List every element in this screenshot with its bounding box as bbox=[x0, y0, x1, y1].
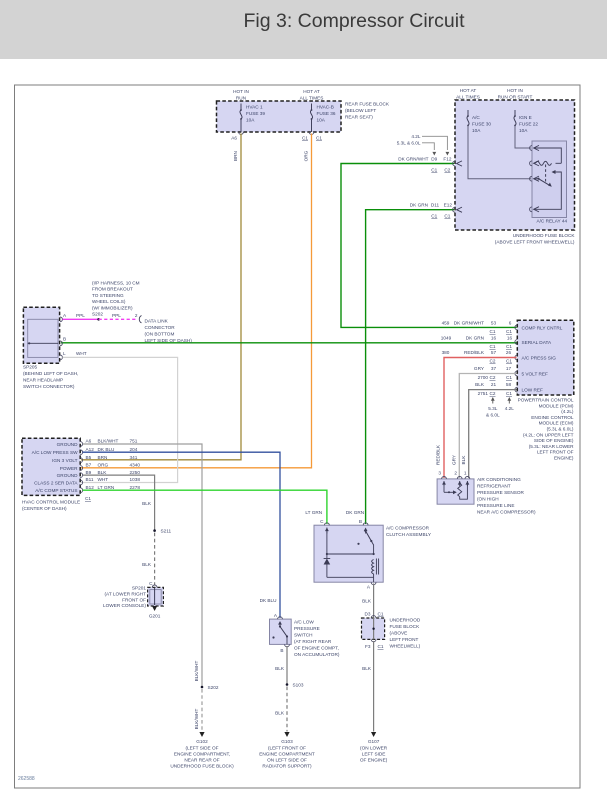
wire WHT 1038 SP205 to HVAC module bbox=[63, 357, 178, 482]
svg-text:BLK: BLK bbox=[362, 599, 372, 604]
svg-text:ENGINE COMPARTMENT: ENGINE COMPARTMENT bbox=[259, 751, 315, 756]
svg-text:LEFT SIDE: LEFT SIDE bbox=[362, 751, 386, 756]
svg-text:(LEFT SIDE OF: (LEFT SIDE OF bbox=[186, 745, 219, 750]
pressure sensor resistor bbox=[458, 483, 462, 496]
svg-text:A/C PRESS SIG: A/C PRESS SIG bbox=[522, 356, 557, 361]
svg-text:DK GRN: DK GRN bbox=[466, 336, 484, 341]
wire BLK 2250 to SP201 bbox=[83, 475, 155, 530]
svg-text:5 VOLT REF: 5 VOLT REF bbox=[522, 372, 549, 377]
svg-text:58: 58 bbox=[506, 382, 512, 387]
svg-text:WHT: WHT bbox=[98, 477, 109, 482]
SP201 bus wire bbox=[154, 587, 156, 605]
svg-text:IGN 3 VOLT: IGN 3 VOLT bbox=[52, 458, 78, 463]
svg-text:F3: F3 bbox=[365, 644, 371, 649]
relay pin 4 output bbox=[530, 207, 532, 212]
svg-text:RED/BLK: RED/BLK bbox=[436, 444, 441, 465]
svg-text:C1: C1 bbox=[444, 214, 450, 219]
splice pack SP201 inner box bbox=[150, 590, 161, 604]
svg-text:BLK: BLK bbox=[142, 562, 152, 567]
HVAC control module box bbox=[22, 438, 80, 495]
svg-text:POWERTRAIN CONTROL: POWERTRAIN CONTROL bbox=[518, 398, 574, 403]
svg-text:CLASS 2 SER DATA: CLASS 2 SER DATA bbox=[34, 481, 78, 486]
svg-text:A/C LOW PRESS SW: A/C LOW PRESS SW bbox=[32, 450, 78, 455]
svg-text:A/C: A/C bbox=[472, 115, 480, 120]
svg-text:D9: D9 bbox=[431, 157, 437, 162]
A/C refrigerant pressure sensor box bbox=[437, 479, 474, 504]
svg-text:PPL: PPL bbox=[76, 313, 85, 318]
svg-text:A/C RELAY 44: A/C RELAY 44 bbox=[537, 219, 568, 224]
svg-text:1038: 1038 bbox=[130, 477, 141, 482]
svg-text:ON ACCUMULATOR): ON ACCUMULATOR) bbox=[294, 652, 340, 657]
svg-text:LT GRN: LT GRN bbox=[305, 510, 322, 515]
svg-text:C2: C2 bbox=[490, 375, 496, 380]
svg-text:OF ENGINE COMPT,: OF ENGINE COMPT, bbox=[294, 646, 339, 651]
svg-text:(BELOW LEFT: (BELOW LEFT bbox=[345, 108, 376, 113]
svg-text:16: 16 bbox=[491, 336, 497, 341]
svg-text:17: 17 bbox=[506, 366, 512, 371]
fuse HVAC-B FUSE 36 10A bbox=[311, 104, 313, 111]
svg-text:A/C LOW: A/C LOW bbox=[294, 620, 314, 625]
svg-text:4.2L: 4.2L bbox=[411, 134, 421, 139]
svg-text:(AT RIGHT REAR: (AT RIGHT REAR bbox=[294, 639, 332, 644]
splice pack SP205 inner box bbox=[28, 319, 58, 357]
svg-text:2250: 2250 bbox=[130, 470, 141, 475]
svg-text:CONNECTOR: CONNECTOR bbox=[145, 325, 176, 330]
svg-text:TO STEERING: TO STEERING bbox=[92, 293, 124, 298]
splice pack SP201 outer box bbox=[148, 587, 164, 606]
pin A6 of rear fuse block bbox=[239, 132, 244, 134]
svg-text:FUSE 22: FUSE 22 bbox=[519, 122, 538, 127]
wire DK GRN/WHT 459 relay control bbox=[341, 164, 517, 328]
clutch diode bbox=[326, 554, 328, 558]
svg-text:4340: 4340 bbox=[130, 463, 141, 468]
splice S202 on BLK/WHT bbox=[201, 686, 204, 689]
relay pin 2 coil bbox=[530, 161, 532, 166]
svg-text:ORG: ORG bbox=[303, 150, 308, 161]
rear fuse block box bbox=[217, 101, 342, 132]
relay coil feed from pin 1 bbox=[534, 148, 561, 163]
wire DK GRN 1050 compressor clutch feed bbox=[366, 210, 454, 524]
svg-text:DK GRN: DK GRN bbox=[346, 510, 364, 515]
svg-text:BLK: BLK bbox=[275, 666, 285, 671]
svg-text:GRY: GRY bbox=[474, 366, 485, 371]
fuse A/C FUSE 30 10A bbox=[467, 110, 469, 116]
svg-text:C2: C2 bbox=[444, 168, 450, 173]
underhood fuse block box bbox=[455, 100, 575, 230]
pin F12 connector at underhood block bbox=[453, 161, 455, 166]
svg-text:A6: A6 bbox=[231, 136, 237, 141]
svg-text:3: 3 bbox=[438, 471, 441, 476]
svg-text:(BEHIND LEFT OF DASH,: (BEHIND LEFT OF DASH, bbox=[23, 371, 78, 376]
svg-text:HOT AT: HOT AT bbox=[303, 89, 320, 94]
svg-text:PRESSURE SENSOR: PRESSURE SENSOR bbox=[477, 490, 525, 495]
wire BLK/WHT dashed to ground bbox=[201, 689, 203, 732]
SP205 pin L bbox=[60, 355, 62, 360]
svg-text:ALL TIMES: ALL TIMES bbox=[300, 96, 324, 101]
svg-text:1049: 1049 bbox=[441, 336, 452, 341]
PCM engine variant arrows bbox=[492, 400, 494, 404]
svg-text:4.2L: 4.2L bbox=[505, 406, 515, 411]
svg-text:REAR FUSE BLOCK: REAR FUSE BLOCK bbox=[345, 102, 390, 107]
svg-text:DK GRN/WHT: DK GRN/WHT bbox=[398, 157, 428, 162]
wire from fuse 22 to relay pin 1 bbox=[515, 126, 531, 149]
svg-text:C1: C1 bbox=[431, 168, 437, 173]
svg-text:53: 53 bbox=[491, 321, 497, 326]
compressor pin C bbox=[325, 523, 330, 525]
svg-text:HVAC-B: HVAC-B bbox=[317, 105, 334, 110]
wire BLK underhood block to G107 bbox=[373, 641, 375, 732]
svg-text:BLK: BLK bbox=[461, 455, 466, 465]
svg-text:WHEELWELL): WHEELWELL) bbox=[390, 644, 421, 649]
svg-text:UNDERHOOD FUSE BLOCK: UNDERHOOD FUSE BLOCK bbox=[513, 233, 576, 238]
svg-text:SP205: SP205 bbox=[23, 365, 37, 370]
PCM pin SERIAL DATA bbox=[515, 340, 517, 345]
svg-text:C2: C2 bbox=[490, 359, 496, 364]
fuse IGN E FUSE 22 10A bbox=[514, 110, 516, 116]
svg-text:2751: 2751 bbox=[478, 391, 489, 396]
svg-text:HOT IN: HOT IN bbox=[507, 88, 523, 93]
svg-text:FROM BREAKOUT: FROM BREAKOUT bbox=[92, 287, 133, 292]
svg-text:G107: G107 bbox=[368, 739, 380, 744]
A/C low pressure switch box bbox=[270, 619, 292, 644]
svg-text:DK GRN: DK GRN bbox=[410, 203, 428, 208]
ground G103 bbox=[284, 732, 289, 737]
clutch internal bus bbox=[326, 528, 328, 555]
svg-text:RED/BLK: RED/BLK bbox=[464, 350, 485, 355]
svg-text:G201: G201 bbox=[149, 614, 161, 619]
svg-text:26: 26 bbox=[506, 350, 512, 355]
svg-text:2: 2 bbox=[135, 313, 138, 318]
splice S211 bbox=[153, 529, 156, 532]
svg-text:NEAR A/C COMPRESSOR): NEAR A/C COMPRESSOR) bbox=[477, 510, 536, 515]
pressure sensor wiper bbox=[443, 481, 445, 492]
powertrain control module box bbox=[517, 320, 574, 395]
svg-text:HOT IN: HOT IN bbox=[233, 89, 249, 94]
svg-text:B: B bbox=[280, 648, 283, 653]
pressure sensor pin 2 bbox=[457, 477, 462, 479]
svg-text:6: 6 bbox=[509, 321, 512, 326]
svg-text:PRESSURE LINE: PRESSURE LINE bbox=[477, 503, 515, 508]
svg-text:10A: 10A bbox=[317, 118, 326, 123]
svg-text:A/C COMP STATUS: A/C COMP STATUS bbox=[35, 488, 77, 493]
svg-text:(ABOVE LEFT FRONT WHEELWELL): (ABOVE LEFT FRONT WHEELWELL) bbox=[495, 240, 575, 245]
svg-text:B7: B7 bbox=[86, 463, 92, 468]
svg-text:C1: C1 bbox=[431, 214, 437, 219]
svg-text:21: 21 bbox=[491, 382, 497, 387]
svg-text:UNDERHOOD FUSE BLOCK): UNDERHOOD FUSE BLOCK) bbox=[170, 763, 234, 768]
svg-text:B5: B5 bbox=[86, 455, 92, 460]
svg-text:C1: C1 bbox=[506, 344, 512, 349]
svg-text:NEAR REAR OF: NEAR REAR OF bbox=[184, 757, 219, 762]
svg-text:(5.3L: NEAR LOWER: (5.3L: NEAR LOWER bbox=[529, 444, 574, 449]
PCM pin A/C PRESS SIG bbox=[515, 355, 517, 360]
svg-text:ENGINE CONTROL: ENGINE CONTROL bbox=[531, 415, 574, 420]
wire RED/BLK 380 pressure signal bbox=[444, 358, 517, 479]
svg-text:ALL TIMES: ALL TIMES bbox=[456, 95, 480, 100]
SP205 pin B bbox=[60, 341, 62, 346]
svg-text:C1: C1 bbox=[378, 644, 384, 649]
svg-text:RUN: RUN bbox=[236, 96, 246, 101]
pin E12 connector at underhood block bbox=[453, 207, 455, 212]
svg-text:RADIATOR SUPPORT): RADIATOR SUPPORT) bbox=[262, 763, 312, 768]
pressure sensor pin 3 bbox=[442, 477, 447, 479]
svg-text:LEFT SIDE OF DASH): LEFT SIDE OF DASH) bbox=[145, 338, 193, 343]
svg-text:CLUTCH ASSEMBLY: CLUTCH ASSEMBLY bbox=[386, 532, 432, 537]
svg-text:A/C COMPRESSOR: A/C COMPRESSOR bbox=[386, 526, 430, 531]
svg-text:ON LEFT SIDE OF: ON LEFT SIDE OF bbox=[267, 757, 307, 762]
svg-text:PRESSURE: PRESSURE bbox=[294, 626, 320, 631]
low pressure switch pin A bbox=[278, 617, 283, 619]
svg-text:DK BLU: DK BLU bbox=[98, 447, 116, 452]
clutch switch blade bbox=[365, 530, 367, 532]
svg-text:POWER: POWER bbox=[60, 466, 78, 471]
svg-text:C1: C1 bbox=[506, 329, 512, 334]
wire PPL dashed segment bbox=[99, 318, 137, 320]
A/C compressor clutch assembly box bbox=[314, 525, 383, 582]
clutch coil bbox=[372, 560, 374, 574]
svg-text:(CENTER OF DASH): (CENTER OF DASH) bbox=[22, 506, 67, 511]
svg-text:341: 341 bbox=[130, 455, 138, 460]
svg-text:C2: C2 bbox=[490, 391, 496, 396]
svg-text:FRONT OF: FRONT OF bbox=[122, 597, 146, 602]
svg-text:751: 751 bbox=[130, 439, 138, 444]
wire DK BLU 204 to low pressure switch bbox=[83, 452, 280, 618]
svg-text:BLK/WHT: BLK/WHT bbox=[98, 439, 119, 444]
svg-text:A12: A12 bbox=[86, 447, 95, 452]
svg-text:SWITCH: SWITCH bbox=[294, 633, 313, 638]
svg-text:BLK: BLK bbox=[142, 501, 152, 506]
wire ORG 4340 bbox=[81, 134, 312, 468]
svg-text:BLK/WHT: BLK/WHT bbox=[194, 660, 199, 681]
A/C relay 44 box bbox=[532, 141, 567, 218]
svg-text:WHEEL COILS): WHEEL COILS) bbox=[92, 299, 126, 304]
svg-text:2: 2 bbox=[454, 471, 457, 476]
wire BLK dashed to SP201 bbox=[154, 533, 156, 585]
svg-text:BLK/WHT: BLK/WHT bbox=[194, 708, 199, 729]
svg-text:SERIAL DATA: SERIAL DATA bbox=[522, 340, 552, 345]
svg-text:C1: C1 bbox=[490, 329, 496, 334]
relay pin 3 switch common bbox=[530, 176, 532, 181]
relay actuator dashed link bbox=[545, 165, 547, 184]
wire DK GRN 1049 serial data bbox=[61, 342, 517, 344]
svg-text:(ON HIGH: (ON HIGH bbox=[477, 497, 499, 502]
svg-text:380: 380 bbox=[442, 350, 450, 355]
pin C1 of rear fuse block bbox=[309, 132, 314, 134]
svg-text:37: 37 bbox=[491, 366, 497, 371]
svg-text:BLK: BLK bbox=[362, 666, 372, 671]
svg-text:HOT AT: HOT AT bbox=[460, 88, 477, 93]
svg-text:(4.2L): (4.2L) bbox=[561, 409, 574, 414]
svg-text:(ON LOWER: (ON LOWER bbox=[360, 745, 388, 750]
svg-text:C1: C1 bbox=[506, 359, 512, 364]
svg-text:LEFT FRONT: LEFT FRONT bbox=[390, 637, 419, 642]
svg-text:RUN OR START: RUN OR START bbox=[498, 95, 533, 100]
svg-text:10A: 10A bbox=[519, 128, 528, 133]
svg-text:PPL: PPL bbox=[112, 313, 121, 318]
clutch switch contact dot bbox=[357, 543, 359, 545]
svg-text:HVAC 1: HVAC 1 bbox=[246, 105, 263, 110]
svg-text:ENGINE): ENGINE) bbox=[554, 456, 574, 461]
svg-text:16: 16 bbox=[507, 336, 513, 341]
SP205 bus bar junction bbox=[28, 342, 58, 344]
svg-text:B: B bbox=[359, 519, 362, 524]
relay switch contact from pin 4 bbox=[534, 172, 561, 209]
svg-text:B9: B9 bbox=[86, 470, 92, 475]
relay switch blade bbox=[539, 179, 550, 186]
wire BLK dashed to G103 bbox=[286, 687, 288, 732]
svg-text:BLK: BLK bbox=[475, 382, 485, 387]
compressor pin B bbox=[363, 523, 368, 525]
svg-text:HVAC CONTROL MODULE: HVAC CONTROL MODULE bbox=[22, 500, 80, 505]
splice pack SP205 outer box bbox=[23, 307, 59, 363]
compressor pin A bbox=[371, 582, 376, 584]
svg-text:2278: 2278 bbox=[130, 485, 141, 490]
svg-text:F12: F12 bbox=[443, 157, 451, 162]
fuse HVAC 1 FUSE 39 10A bbox=[240, 104, 242, 111]
svg-text:262588: 262588 bbox=[18, 776, 35, 782]
svg-text:SWITCH CONNECTOR): SWITCH CONNECTOR) bbox=[23, 384, 75, 389]
ground G102 bbox=[199, 732, 204, 737]
underhood pass-through pin F3 bbox=[371, 639, 376, 641]
wire PPL 1807 to data link connector bbox=[63, 318, 99, 320]
svg-text:FUSE BLOCK: FUSE BLOCK bbox=[390, 624, 421, 629]
svg-text:S211: S211 bbox=[161, 529, 172, 534]
wire BLK 2251 switch to G103 bbox=[286, 646, 288, 685]
svg-text:UNDERHOOD: UNDERHOOD bbox=[390, 618, 421, 623]
svg-text:C1: C1 bbox=[316, 136, 322, 141]
PCM pin COMP RLY CNTRL bbox=[515, 325, 517, 330]
pressure sensor pin 1 bbox=[465, 477, 470, 479]
low pressure switch pin B bbox=[285, 644, 290, 646]
wire from fuse 30 to relay pin 3 bbox=[468, 126, 531, 179]
svg-text:(I/P HARNESS, 10 CM: (I/P HARNESS, 10 CM bbox=[92, 281, 140, 286]
svg-text:COMP RLY CNTRL: COMP RLY CNTRL bbox=[522, 325, 563, 330]
svg-text:(ABOVE: (ABOVE bbox=[390, 631, 408, 636]
svg-text:OF ENGINE): OF ENGINE) bbox=[360, 757, 388, 762]
wire BLK/WHT 751 to G102 bbox=[83, 444, 202, 687]
svg-text:LEFT FRONT OF: LEFT FRONT OF bbox=[537, 450, 574, 455]
svg-text:FUSE 39: FUSE 39 bbox=[246, 111, 265, 116]
svg-text:(LEFT FRONT OF: (LEFT FRONT OF bbox=[268, 745, 306, 750]
svg-text:S202: S202 bbox=[92, 312, 103, 317]
svg-text:10A: 10A bbox=[246, 118, 255, 123]
svg-text:DATA LINK: DATA LINK bbox=[145, 319, 169, 324]
svg-text:LOW REF: LOW REF bbox=[522, 388, 543, 393]
underhood fuse block pass-through box bbox=[362, 618, 385, 639]
svg-text:REFRIGERANT: REFRIGERANT bbox=[477, 484, 511, 489]
svg-text:WHT: WHT bbox=[76, 351, 87, 356]
PCM pin 5 VOLT REF bbox=[515, 371, 517, 376]
wire BRN 341 bbox=[81, 134, 241, 460]
splice S202 on PPL wire bbox=[97, 318, 100, 321]
svg-text:C1: C1 bbox=[85, 496, 91, 501]
svg-text:SP201: SP201 bbox=[132, 586, 146, 591]
svg-text:B12: B12 bbox=[86, 485, 95, 490]
svg-text:Fig 3: Compressor Circuit: Fig 3: Compressor Circuit bbox=[243, 10, 465, 32]
svg-text:ENGINE COMPARTMENT,: ENGINE COMPARTMENT, bbox=[174, 751, 230, 756]
svg-text:ORG: ORG bbox=[98, 463, 109, 468]
svg-text:G102: G102 bbox=[196, 739, 208, 744]
relay pin 1 bbox=[530, 146, 532, 151]
svg-text:C1: C1 bbox=[506, 391, 512, 396]
svg-text:C1: C1 bbox=[378, 612, 384, 617]
svg-text:BLK: BLK bbox=[98, 470, 108, 475]
svg-text:204: 204 bbox=[130, 447, 138, 452]
clutch bottom bus bbox=[327, 576, 374, 578]
svg-text:5.3L: 5.3L bbox=[488, 406, 498, 411]
svg-text:1: 1 bbox=[464, 471, 467, 476]
svg-text:GROUND: GROUND bbox=[57, 442, 78, 447]
pressure sensor return bbox=[460, 481, 468, 499]
svg-text:IGN E: IGN E bbox=[519, 115, 532, 120]
svg-text:BLK: BLK bbox=[275, 711, 285, 716]
svg-text:S103: S103 bbox=[293, 683, 304, 688]
svg-text:C1: C1 bbox=[506, 375, 512, 380]
splice S103 bbox=[286, 683, 289, 686]
svg-text:LOWER CONSOLE): LOWER CONSOLE) bbox=[103, 603, 146, 608]
title bar bbox=[0, 0, 607, 59]
svg-text:SIDE OF ENGINE): SIDE OF ENGINE) bbox=[534, 438, 574, 443]
ground G201 bbox=[152, 606, 157, 611]
svg-text:FUSE 36: FUSE 36 bbox=[317, 111, 336, 116]
svg-text:REAR SEAT): REAR SEAT) bbox=[345, 115, 373, 120]
svg-text:(AT LOWER RIGHT: (AT LOWER RIGHT bbox=[105, 592, 147, 597]
svg-text:MODULE (PCM): MODULE (PCM) bbox=[539, 403, 574, 408]
svg-text:A6: A6 bbox=[86, 439, 92, 444]
svg-text:(ON BOTTOM: (ON BOTTOM bbox=[145, 332, 175, 337]
svg-text:(W/ IMMOBILIZER): (W/ IMMOBILIZER) bbox=[92, 305, 133, 310]
svg-text:GRY: GRY bbox=[451, 454, 456, 465]
PCM pin LOW REF bbox=[515, 387, 517, 392]
svg-text:(4.2L: ON UPPER LEFT: (4.2L: ON UPPER LEFT bbox=[523, 432, 574, 437]
svg-text:D11: D11 bbox=[431, 203, 440, 208]
svg-text:B11: B11 bbox=[86, 477, 94, 482]
svg-text:L: L bbox=[63, 351, 66, 356]
wire LT GRN 2278 to compressor clutch bbox=[83, 490, 327, 524]
underhood fuse block pass-through pin D3 bbox=[371, 616, 376, 618]
svg-text:E12: E12 bbox=[444, 203, 453, 208]
svg-text:C1: C1 bbox=[302, 136, 308, 141]
svg-text:D3: D3 bbox=[365, 612, 371, 617]
svg-text:FUSE 30: FUSE 30 bbox=[472, 122, 491, 127]
svg-text:10A: 10A bbox=[472, 128, 481, 133]
svg-text:DK BLU: DK BLU bbox=[260, 598, 278, 603]
svg-text:DK GRN/WHT: DK GRN/WHT bbox=[454, 321, 484, 326]
wire BLK 2751 low reference bbox=[469, 390, 517, 478]
svg-text:5.3L & 6.0L: 5.3L & 6.0L bbox=[397, 141, 421, 146]
svg-text:& 6.0L: & 6.0L bbox=[486, 413, 500, 418]
svg-text:NEAR HEADLAMP: NEAR HEADLAMP bbox=[23, 378, 63, 383]
svg-text:G103: G103 bbox=[281, 739, 293, 744]
svg-text:2700: 2700 bbox=[478, 375, 489, 380]
wire GRY 2700 5 volt reference bbox=[459, 374, 516, 479]
svg-text:BRN: BRN bbox=[98, 455, 108, 460]
svg-text:459: 459 bbox=[442, 321, 450, 326]
svg-text:C1: C1 bbox=[490, 344, 496, 349]
svg-text:LT GRN: LT GRN bbox=[98, 485, 115, 490]
svg-text:57: 57 bbox=[491, 350, 497, 355]
svg-text:MODULE (ECM): MODULE (ECM) bbox=[539, 421, 574, 426]
svg-text:AIR CONDITIONING: AIR CONDITIONING bbox=[477, 477, 521, 482]
SP205 pin A bbox=[60, 317, 62, 322]
svg-text:S202: S202 bbox=[208, 685, 219, 690]
low pressure switch contact dot bbox=[272, 636, 274, 638]
low pressure switch blade bbox=[279, 625, 281, 627]
svg-text:GROUND: GROUND bbox=[57, 473, 78, 478]
ground G107 bbox=[371, 732, 376, 737]
svg-text:B: B bbox=[63, 337, 66, 342]
wire BLK 150 compressor to underhood block bbox=[373, 584, 375, 618]
